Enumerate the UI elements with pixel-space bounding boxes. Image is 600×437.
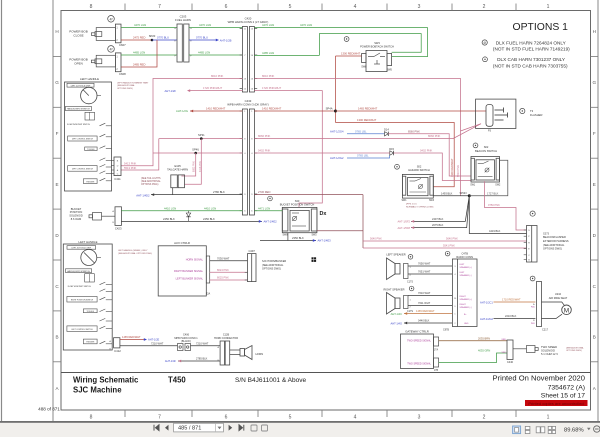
svg-text:Wiring Schematic: Wiring Schematic	[73, 376, 139, 385]
wire 7210 WHT C412 to C406	[120, 345, 178, 347]
svg-text:2407 BLK: 2407 BLK	[432, 217, 444, 221]
svg-text:488 of 871: 488 of 871	[38, 407, 60, 412]
svg-text:T450: T450	[168, 376, 186, 385]
wire 4485 LGN C420 to junction	[254, 54, 319, 56]
svg-text:(SEE TAIL LIGHTS: (SEE TAIL LIGHTS	[141, 177, 161, 180]
svg-text:3: 3	[418, 415, 421, 421]
wire 1720 PNK-WHT C420 to off-sheet arrow	[190, 90, 242, 92]
svg-text:4470 LGN: 4470 LGN	[134, 23, 146, 27]
svg-text:1300 RED/WHT: 1300 RED/WHT	[341, 51, 361, 55]
wire 4470 LGN C420 to bobtach switch loop	[254, 28, 427, 57]
svg-text:RIGHT POSITION SWITCH: RIGHT POSITION SWITCH	[71, 300, 94, 302]
svg-text:F: F	[593, 131, 596, 136]
svg-text:LEFT HANDLE (WHEEL) ONLY: LEFT HANDLE (WHEEL) ONLY	[118, 249, 148, 252]
wire 1300 trunk vertical	[335, 56, 337, 123]
svg-text:1465 RED/WHT: 1465 RED/WHT	[416, 309, 435, 313]
svg-text:FLOAT W/DETENT SWITCH: FLOAT W/DETENT SWITCH	[68, 285, 92, 288]
svg-text:1465 RED/WHT: 1465 RED/WHT	[358, 107, 378, 111]
svg-text:4485 LGN: 4485 LGN	[262, 51, 274, 55]
wire 7611 WHT right speaker to radio	[408, 305, 452, 307]
svg-text:AHT-1/2F: AHT-1/2F	[165, 89, 177, 93]
svg-text:HORN: HORN	[256, 352, 264, 356]
svg-text:4f: 4f	[110, 18, 113, 22]
svg-text:C497: C497	[248, 249, 255, 253]
svg-text:E105: E105	[174, 164, 181, 168]
note symbol C073	[530, 211, 535, 216]
toolbar prev page button	[165, 425, 169, 431]
svg-text:7210 WHT: 7210 WHT	[196, 341, 209, 345]
svg-text:3: 3	[418, 4, 421, 10]
svg-text:OPEN: OPEN	[74, 61, 83, 65]
svg-text:OPTIONS DWG): OPTIONS DWG)	[262, 267, 281, 270]
svg-text:LEFT JOYSTICK GRIP: LEFT JOYSTICK GRIP	[71, 85, 91, 87]
svg-text:S02: S02	[417, 164, 422, 168]
wire 8066 PNK C433 to flasher diagonal	[254, 124, 481, 139]
svg-text:OPTIONS DWG): OPTIONS DWG)	[117, 88, 133, 90]
wire 0770 BLU SP20 to C203	[152, 39, 177, 41]
svg-text:0765 LBL: 0765 LBL	[355, 129, 367, 133]
svg-text:AHT-1/5F2: AHT-1/5F2	[397, 220, 410, 224]
svg-text:TRIGGER: TRIGGER	[86, 181, 95, 183]
svg-text:SW5: SW5	[387, 68, 393, 71]
svg-text:H: H	[55, 29, 58, 34]
svg-text:EXTERIOR HARNESS: EXTERIOR HARNESS	[543, 240, 569, 243]
wire 8025 PNK J2A to C497	[210, 279, 248, 281]
wire 8024 PNK J2A to C497	[210, 271, 248, 273]
zone row letters right	[593, 29, 597, 391]
svg-text:8: 8	[90, 4, 93, 10]
bucket solenoid plug	[89, 213, 115, 221]
seat motor	[562, 305, 572, 315]
svg-text:SPEAKER (-): SPEAKER (-)	[460, 306, 472, 309]
svg-text:AHT-1/4E2: AHT-1/4E2	[264, 220, 278, 224]
wire 2785 BLK C12B to arrow	[178, 360, 220, 362]
svg-text:SW3: SW3	[374, 41, 380, 45]
svg-text:AHT-1/2E: AHT-1/2E	[148, 338, 160, 342]
svg-text:SP31: SP31	[198, 133, 205, 137]
two speed solenoid plug	[513, 346, 538, 353]
svg-text:5413 PNK: 5413 PNK	[124, 161, 136, 165]
zone row ticks right	[591, 56, 599, 361]
svg-text:7354672 (A): 7354672 (A)	[548, 385, 585, 392]
svg-text:SP4U: SP4U	[192, 147, 199, 151]
wire 2350 BLK bucket switch to arrow	[260, 240, 316, 242]
wire 2475 RED C607 to SP20	[121, 39, 152, 41]
connector J7A	[434, 337, 439, 346]
diode D14	[385, 132, 389, 136]
wire 8066 PNK row to C433	[159, 138, 243, 140]
toggle box 1	[85, 147, 97, 151]
wire 1493 BLK hazard to SP4N	[433, 195, 469, 197]
svg-text:M: M	[564, 307, 569, 314]
note symbol left speaker	[408, 254, 413, 259]
svg-text:4485 LGN: 4485 LGN	[133, 51, 145, 55]
svg-text:4485 LGN: 4485 LGN	[198, 51, 210, 55]
svg-text:S02: S02	[484, 145, 489, 149]
svg-text:7610 WHT: 7610 WHT	[418, 291, 431, 295]
svg-text:2075 BLK: 2075 BLK	[432, 223, 444, 227]
wire 2485 RED C608 up to SP20	[121, 40, 157, 67]
svg-text:5.1 OHM 12 V: 5.1 OHM 12 V	[541, 352, 558, 356]
zone row ticks left	[53, 56, 61, 361]
svg-text:4: 4	[354, 415, 357, 421]
power bob open solenoid plug	[91, 59, 101, 64]
svg-text:0770 BLU: 0770 BLU	[196, 36, 208, 40]
svg-text:6: 6	[225, 415, 228, 421]
svg-text:8066 PNK: 8066 PNK	[258, 134, 270, 138]
svg-text:4471 LGN: 4471 LGN	[258, 206, 270, 210]
svg-text:1493 BLK: 1493 BLK	[441, 191, 453, 195]
svg-text:5640 PNK: 5640 PNK	[446, 237, 458, 241]
node SP4U	[194, 152, 197, 155]
svg-text:C97B: C97B	[443, 329, 449, 332]
svg-text:C411: C411	[114, 177, 121, 181]
svg-text:SP4N: SP4N	[459, 191, 466, 195]
left joystick grip label box 2	[67, 246, 96, 250]
power bob close solenoid body	[96, 28, 115, 41]
svg-text:RADIO CONN: RADIO CONN	[456, 255, 473, 259]
svg-text:BEACON SWITCH: BEACON SWITCH	[475, 149, 497, 153]
svg-text:2: 2	[483, 415, 486, 421]
wire C217 to motor top	[542, 302, 565, 305]
red watermark bar	[525, 400, 588, 406]
wire 7610 WHT right speaker to radio	[408, 295, 452, 297]
left handle 2 enclosure	[63, 244, 112, 350]
svg-text:TOGGLE: TOGGLE	[86, 311, 94, 313]
svg-text:0402 PNK: 0402 PNK	[420, 149, 432, 153]
svg-text:C423: C423	[115, 226, 122, 230]
svg-text:LEFT SPEAKER: LEFT SPEAKER	[386, 253, 405, 257]
svg-text:1300 RED/WHT: 1300 RED/WHT	[450, 158, 454, 177]
joystick circle 2	[81, 250, 97, 266]
trigger box 1	[83, 179, 97, 184]
svg-text:NORMALLY OPEN/CLOSE): NORMALLY OPEN/CLOSE)	[406, 205, 434, 208]
note 1 symbol	[482, 40, 487, 45]
note symbol above C608	[108, 46, 115, 53]
svg-text:4419 BLK: 4419 BLK	[489, 229, 501, 233]
svg-text:2785 BLK: 2785 BLK	[196, 357, 208, 361]
connector C406	[178, 344, 191, 351]
wire 1727 BLK SP4N to beacon switch right	[469, 160, 508, 196]
svg-text:C217: C217	[542, 329, 549, 332]
wire 4471 LGN C433 to bucket switch	[254, 210, 282, 212]
note symbol near flasher	[520, 108, 525, 113]
svg-text:SPEAKER (+): SPEAKER (+)	[460, 298, 473, 301]
wire 2736 RED C433 to riser	[254, 194, 363, 196]
wire bucket switch bottom stub	[287, 233, 289, 241]
node SP31	[200, 137, 203, 140]
svg-text:7650 WHT: 7650 WHT	[418, 262, 431, 266]
svg-text:J7A: J7A	[434, 348, 439, 351]
svg-text:8560 PNK: 8560 PNK	[408, 129, 420, 133]
svg-text:LEFT: LEFT	[460, 272, 466, 274]
toolbar two-page continuous icon	[548, 426, 555, 433]
svg-text:SW3: SW3	[429, 200, 435, 202]
svg-text:AHT-1/5F8: AHT-1/5F8	[397, 226, 410, 230]
svg-text:0750 PNK: 0750 PNK	[488, 203, 500, 207]
svg-text:LEFT CONTROL SWITCH: LEFT CONTROL SWITCH	[72, 168, 94, 170]
connector C217	[537, 282, 542, 327]
svg-text:C17S: C17S	[407, 280, 413, 283]
toggle box 2	[83, 309, 97, 313]
svg-text:SW8: SW8	[361, 65, 367, 68]
svg-text:SW2: SW2	[495, 185, 501, 187]
svg-text:2210 BLK: 2210 BLK	[505, 314, 517, 318]
svg-text:(SEE ADDITIONAL: (SEE ADDITIONAL	[262, 264, 284, 267]
wire C12B to horn	[230, 349, 240, 351]
svg-text:OPTIONS 1: OPTIONS 1	[513, 22, 569, 33]
note symbol above C607	[108, 15, 115, 22]
svg-text:LEFT BLINKER SIGNAL: LEFT BLINKER SIGNAL	[176, 278, 204, 281]
svg-text:C440: C440	[507, 361, 514, 364]
svg-text:SW5: SW5	[312, 235, 318, 237]
svg-text:4470 LGN: 4470 LGN	[262, 23, 274, 27]
svg-text:LEFT CONTROL SWITCH: LEFT CONTROL SWITCH	[71, 329, 93, 331]
svg-text:1300 RED/WHT: 1300 RED/WHT	[357, 118, 377, 122]
wire bucket switch right to riser	[317, 230, 363, 232]
svg-text:1: 1	[547, 4, 550, 10]
svg-text:2: 2	[483, 4, 486, 10]
svg-text:4035 GRN: 4035 GRN	[478, 349, 490, 353]
window left edge	[1, 0, 3, 421]
switch contacts box2	[100, 282, 113, 344]
svg-text:C17S: C17S	[407, 310, 413, 313]
svg-text:89.68%: 89.68%	[564, 427, 584, 433]
wire 2075 BLK diagonal from SP4N	[411, 196, 469, 228]
svg-text:2736 RED: 2736 RED	[258, 190, 270, 194]
note symbol hazard switch	[395, 164, 400, 169]
svg-text:S30: S30	[295, 199, 300, 203]
svg-text:(NOT IN STD CAB HARN 7303755): (NOT IN STD CAB HARN 7303755)	[493, 63, 568, 68]
toolbar last page button	[239, 425, 244, 431]
svg-text:1720 PNK/WHT: 1720 PNK/WHT	[203, 86, 222, 90]
svg-text:J7B: J7B	[434, 369, 439, 372]
wire 8010 PNK C420 to C411 riser	[121, 79, 242, 166]
svg-text:DLX CAB HARN 7301237 ONLY: DLX CAB HARN 7301237 ONLY	[497, 57, 566, 62]
toolbar next page button	[229, 425, 233, 431]
wire 4470 LGN C203 to C420	[189, 27, 242, 29]
svg-text:D15: D15	[389, 147, 394, 151]
svg-text:FLOAT W/DETENT SWITCH: FLOAT W/DETENT SWITCH	[67, 123, 91, 126]
svg-text:7030 WHT: 7030 WHT	[217, 256, 230, 260]
wire 1465 RED-WHT C412 to arrow	[120, 339, 144, 341]
wire 4470 LGN C607 to C203	[121, 27, 177, 29]
relay T3 flasher	[476, 99, 516, 128]
svg-text:SW8: SW8	[283, 235, 289, 237]
horn	[240, 349, 245, 357]
revision marker square	[312, 257, 317, 262]
svg-text:4470 LGN: 4470 LGN	[300, 23, 312, 27]
wire 1300 RED-WHT into bobtach switch	[336, 55, 362, 57]
grip symbol 1	[85, 112, 95, 120]
svg-text:2035 BRN: 2035 BRN	[478, 336, 490, 340]
svg-text:GATEWAY CTRLR: GATEWAY CTRLR	[405, 330, 429, 334]
svg-text:LEFT: LEFT	[460, 264, 466, 266]
svg-text:8.6 OHM: 8.6 OHM	[71, 217, 81, 221]
connector C073	[527, 226, 538, 263]
connector J7B	[434, 358, 439, 367]
svg-text:7: 7	[158, 4, 161, 10]
svg-text:SOLENOID: SOLENOID	[541, 348, 555, 352]
note symbol air seat	[530, 276, 535, 281]
svg-text:2450 BLK: 2450 BLK	[203, 217, 215, 221]
svg-text:1: 1	[547, 415, 550, 421]
wire 0402 PNK row to C433	[153, 152, 242, 154]
svg-text:LEFT HANDLE: LEFT HANDLE	[80, 77, 99, 81]
wire D14 output to beacon switch	[388, 134, 471, 176]
node SP4N	[468, 194, 471, 197]
wire 7030 WHT J2A to C497	[210, 260, 248, 262]
svg-text:(SEE ADDITIONAL: (SEE ADDITIONAL	[566, 346, 585, 349]
svg-text:SP4A: SP4A	[326, 107, 333, 111]
svg-text:S/N B4J611001 & Above: S/N B4J611001 & Above	[235, 377, 306, 384]
svg-text:5: 5	[289, 415, 292, 421]
zone column numbers bottom	[90, 415, 550, 421]
svg-text:FLASHER: FLASHER	[530, 113, 542, 117]
svg-text:2780 BLK: 2780 BLK	[213, 190, 225, 194]
svg-text:TWO SPEED: TWO SPEED	[541, 345, 557, 349]
svg-text:Printed copies are uncontrolle: Printed copies are uncontrolled	[528, 401, 583, 406]
wire 4035 GRN J7B to C440	[439, 353, 507, 363]
wire 8010 PNK C420 to beacon area riser	[254, 79, 460, 196]
svg-text:8066 PNK: 8066 PNK	[428, 134, 440, 138]
wire C217 to motor bottom	[542, 314, 563, 318]
handle grip switch box 1	[65, 107, 91, 111]
left handle 1 enclosure	[65, 82, 112, 191]
svg-text:6: 6	[225, 4, 228, 10]
svg-text:7651 WHT: 7651 WHT	[418, 270, 431, 274]
svg-text:(PPS 2.5.5: (PPS 2.5.5	[406, 204, 417, 206]
zone column ticks top	[125, 4, 516, 11]
svg-text:1720 PNK/WHT: 1720 PNK/WHT	[262, 86, 281, 90]
svg-text:G: G	[55, 80, 59, 85]
svg-text:2475 RED: 2475 RED	[133, 36, 145, 40]
svg-text:E: E	[593, 182, 596, 187]
toolbar page input box	[174, 423, 224, 432]
power bob open solenoid body	[96, 55, 115, 67]
svg-text:AHT-1/2G2: AHT-1/2G2	[480, 317, 494, 321]
svg-text:D14: D14	[384, 128, 389, 132]
svg-text:B: B	[593, 335, 596, 340]
svg-text:BUCKET POSITION SWITCH: BUCKET POSITION SWITCH	[280, 203, 315, 207]
wire 0750 PNK beacon to C073	[485, 181, 527, 230]
svg-text:SOLENOID: SOLENOID	[69, 214, 83, 218]
svg-text:SJC HORN/BLINKER: SJC HORN/BLINKER	[262, 260, 286, 263]
title block separator line	[61, 372, 591, 374]
svg-text:LEFT CONTROL SWITCH: LEFT CONTROL SWITCH	[72, 139, 94, 141]
svg-text:(BLACK): (BLACK)	[181, 340, 191, 343]
svg-text:SP20: SP20	[149, 34, 156, 38]
grip symbol 2	[85, 274, 95, 282]
svg-text:7: 7	[158, 415, 161, 421]
note symbol radio conn	[445, 251, 450, 256]
svg-text:C073: C073	[543, 232, 550, 235]
svg-text:LEFT HANDLE IN PARENT PART: LEFT HANDLE IN PARENT PART	[117, 81, 149, 84]
left control switch box 2	[67, 326, 97, 332]
svg-text:1465 RED/WHT: 1465 RED/WHT	[122, 335, 141, 339]
joystick circle 1	[81, 87, 97, 103]
svg-text:RIGHT BLINKER SIGNAL: RIGHT BLINKER SIGNAL	[174, 270, 204, 273]
wire 1300 RED-WHT lower run to hazard switch	[336, 123, 455, 187]
svg-text:RIGHT: RIGHT	[460, 296, 467, 298]
svg-text:TWO-SPEED SIGNAL: TWO-SPEED SIGNAL	[407, 339, 432, 342]
svg-text:24B5: 24B5	[501, 339, 505, 341]
wire 5510 PNK riser diagonal into flasher	[461, 124, 482, 131]
svg-text:SW1: SW1	[402, 200, 408, 202]
svg-text:HORN CONNECTOR: HORN CONNECTOR	[214, 337, 238, 340]
svg-text:8: 8	[90, 415, 93, 421]
svg-text:OPTIONS DWG): OPTIONS DWG)	[566, 350, 582, 352]
toolbar zoom out button	[594, 426, 600, 432]
svg-text:HAZARD SWITCH: HAZARD SWITCH	[408, 168, 430, 172]
power bob close solenoid plug	[91, 32, 101, 37]
E105 ground stub	[172, 188, 174, 195]
svg-text:(NOT IN STD FUEL HARN 7149219): (NOT IN STD FUEL HARN 7149219)	[493, 47, 570, 52]
note symbol right speaker	[409, 286, 414, 291]
svg-text:7611 WHT: 7611 WHT	[418, 301, 431, 305]
wire 2780 BLK arrow to C433	[151, 193, 154, 196]
svg-text:AHT-1/4E3: AHT-1/4E3	[318, 239, 332, 243]
svg-text:0440 BLK: 0440 BLK	[418, 319, 430, 323]
left control switch box 1b	[68, 166, 97, 172]
zone column ticks bottom	[125, 410, 516, 417]
svg-text:TRIGGER: TRIGGER	[86, 342, 95, 344]
svg-text:(SEE ADDITIONAL: (SEE ADDITIONAL	[543, 244, 565, 247]
riser 8002 PNK into E105	[181, 153, 195, 176]
svg-text:4f: 4f	[483, 41, 486, 45]
svg-text:SW1: SW1	[470, 185, 476, 187]
svg-text:CLOSE: CLOSE	[73, 33, 83, 37]
svg-text:RIGHT SPEAKER: RIGHT SPEAKER	[384, 287, 405, 291]
svg-text:AHT-1/2B: AHT-1/2B	[220, 38, 232, 42]
svg-text:2485 RED: 2485 RED	[133, 63, 145, 67]
svg-text:AHT-1/4D2: AHT-1/4D2	[136, 194, 150, 198]
svg-text:AHT-1/2C1: AHT-1/2C1	[480, 300, 493, 304]
svg-text:4: 4	[354, 4, 357, 10]
connector C412	[114, 338, 120, 348]
svg-text:5640 PNK: 5640 PNK	[370, 237, 382, 241]
wire 2035 BRN J7A to C440	[439, 340, 507, 342]
diode on 4410 row	[186, 213, 190, 217]
svg-text:C412: C412	[114, 349, 121, 353]
svg-text:G: G	[593, 80, 597, 85]
note 2 symbol	[483, 57, 488, 62]
note symbol beacon switch	[473, 143, 478, 148]
toolbar first page button	[154, 425, 159, 431]
connector C608	[115, 53, 121, 72]
svg-text:8010 PNK: 8010 PNK	[262, 74, 274, 78]
switch contacts box1	[100, 123, 112, 181]
svg-text:485 / 871: 485 / 871	[178, 426, 201, 432]
connector C607	[115, 24, 121, 43]
wire 4485 LGN C608 to C203	[121, 54, 177, 56]
wire 7651 WHT left speaker to radio	[408, 273, 452, 275]
svg-text:SJC Machine: SJC Machine	[73, 386, 122, 395]
svg-text:C47B: C47B	[461, 252, 468, 256]
left control switch box 1a	[68, 136, 97, 141]
svg-text:AHT-1/4F: AHT-1/4F	[165, 359, 177, 363]
svg-text:0770 BLU: 0770 BLU	[157, 36, 169, 40]
zone column numbers top	[90, 4, 550, 10]
toolbar zoom dropdown	[587, 428, 591, 430]
svg-text:DLX FUEL HARN 7264824 ONLY: DLX FUEL HARN 7264824 ONLY	[496, 40, 567, 45]
svg-text:OPTIONS DWG): OPTIONS DWG)	[141, 184, 159, 186]
svg-text:AHT-1/4G: AHT-1/4G	[390, 321, 402, 325]
left joystick grip label box	[67, 83, 94, 87]
wire 5640 PNK to C073	[363, 240, 527, 242]
toolbar continuous layout icon	[525, 426, 530, 433]
svg-text:(SEE ADDITIONAL: (SEE ADDITIONAL	[117, 84, 136, 87]
